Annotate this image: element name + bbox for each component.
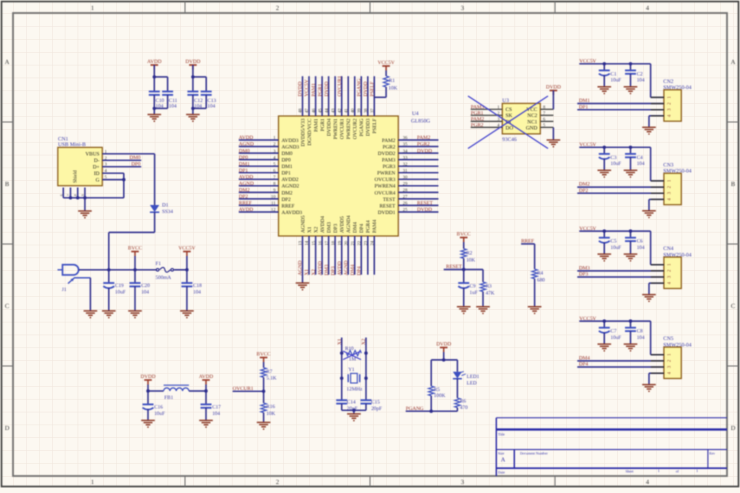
- svg-text:Sheet: Sheet: [626, 470, 634, 474]
- resistor R2 10K: [463, 242, 465, 249]
- svg-text:F1: F1: [156, 261, 162, 267]
- svg-text:PAM3: PAM3: [382, 158, 396, 164]
- U4 pin 24 PAM4: [373, 236, 375, 275]
- svg-text:DP4: DP4: [359, 223, 365, 233]
- svg-text:R2: R2: [466, 251, 472, 257]
- svg-text:DVDD: DVDD: [417, 148, 432, 154]
- svg-text:47K: 47K: [486, 290, 495, 296]
- net DM1 wire pin 2: [577, 103, 664, 105]
- svg-text:X1: X1: [307, 226, 313, 233]
- svg-text:SK: SK: [506, 113, 513, 119]
- capacitor C13 104: [201, 91, 212, 93]
- capacitor C10 104: [153, 77, 155, 92]
- svg-text:CN4: CN4: [663, 246, 673, 252]
- resistor R7 5.1K: [263, 362, 265, 368]
- no-fit cross over U3: [468, 96, 548, 149]
- svg-text:24: 24: [370, 240, 375, 245]
- pin 4 wire ID: [102, 172, 124, 174]
- pin 1 wire VBUS: [102, 153, 154, 155]
- capacitor C19 10uF: [108, 270, 110, 283]
- svg-text:8: 8: [74, 194, 78, 196]
- U4 pin 29 PWREN4: [398, 185, 438, 187]
- wire branch: [154, 76, 167, 78]
- U4 pin 40 OVCUR2: [354, 76, 356, 116]
- svg-text:OVCUR4: OVCUR4: [375, 190, 396, 196]
- wire X1: [341, 338, 343, 401]
- capacitor C2 104: [630, 64, 632, 71]
- svg-text:10uF: 10uF: [611, 161, 622, 167]
- U4 pin 13 AGND5: [302, 236, 304, 283]
- svg-text:PGR1: PGR1: [320, 118, 326, 131]
- svg-text:1: 1: [91, 479, 94, 486]
- svg-text:R3: R3: [486, 284, 492, 290]
- svg-text:AGND2: AGND2: [282, 184, 300, 190]
- svg-text:DP1: DP1: [282, 171, 292, 177]
- svg-text:15: 15: [311, 240, 316, 245]
- svg-text:X2: X2: [311, 269, 317, 276]
- svg-text:27: 27: [403, 194, 408, 199]
- svg-text:38: 38: [363, 108, 368, 113]
- U4 pin 19 AVDD5: [341, 236, 343, 275]
- svg-text:DM3: DM3: [324, 264, 330, 275]
- U4 pin 15 X2: [315, 236, 317, 275]
- wire DVDD stem: [192, 65, 194, 77]
- svg-text:104: 104: [212, 411, 220, 417]
- svg-text:PGANG: PGANG: [357, 78, 363, 96]
- U3 pin 1 CS: [471, 108, 503, 110]
- U4 pin 21 DM4: [354, 236, 356, 275]
- svg-text:B: B: [5, 181, 9, 188]
- U4 pin 2 AGND3: [239, 146, 279, 148]
- crystal Y1 12MHz: [347, 374, 349, 382]
- svg-text:104: 104: [637, 245, 645, 251]
- svg-text:U4: U4: [412, 111, 419, 117]
- U3 pin 6 NC1: [540, 120, 553, 122]
- capacitor C4 104: [630, 147, 632, 154]
- svg-text:PAM2: PAM2: [382, 138, 396, 144]
- svg-text:X1: X1: [304, 269, 310, 276]
- pin 5 wire G: [102, 179, 124, 181]
- svg-text:VBUS: VBUS: [85, 152, 99, 158]
- svg-text:30: 30: [403, 175, 408, 180]
- net DP4 wire pin 3: [577, 366, 664, 368]
- svg-text:AVDD4: AVDD4: [320, 216, 326, 233]
- capacitor C5 10uF: [603, 231, 605, 238]
- U4 pin 12 AAVDD3: [239, 211, 279, 213]
- svg-text:C: C: [731, 303, 735, 310]
- pin stubs: [651, 96, 664, 98]
- svg-text:47: 47: [304, 108, 309, 113]
- svg-text:DVDD4: DVDD4: [327, 118, 333, 136]
- ground: [84, 311, 98, 315]
- U4 pin 20 AGND4: [347, 236, 349, 275]
- svg-text:10K: 10K: [466, 257, 475, 263]
- ground: [128, 311, 142, 315]
- U4 pin 44 DVDD4: [328, 76, 330, 116]
- svg-text:AVDD: AVDD: [239, 207, 254, 213]
- svg-text:500mA: 500mA: [156, 275, 172, 281]
- svg-text:104: 104: [637, 78, 645, 84]
- U4 pin 11 RREF: [239, 204, 279, 206]
- svg-text:R4: R4: [537, 271, 543, 277]
- U4 pin 4 DP0: [239, 159, 279, 161]
- capacitor C11 104: [162, 91, 173, 93]
- ferrite bead FB1: [148, 390, 164, 392]
- svg-text:45: 45: [317, 108, 322, 113]
- ground: [78, 211, 92, 215]
- svg-text:DM2: DM2: [239, 188, 250, 194]
- svg-text:Rev: Rev: [709, 452, 715, 456]
- svg-text:J1: J1: [62, 287, 67, 293]
- svg-text:Title: Title: [498, 433, 505, 437]
- ground: [148, 115, 162, 119]
- svg-text:C1: C1: [611, 71, 617, 77]
- svg-text:DM0: DM0: [130, 155, 141, 161]
- svg-text:PGANG: PGANG: [406, 406, 424, 412]
- svg-text:1: 1: [658, 469, 660, 473]
- wire branch: [431, 359, 457, 361]
- svg-text:104: 104: [637, 161, 645, 167]
- svg-text:DVDD: DVDD: [417, 207, 432, 213]
- svg-text:C14: C14: [347, 400, 356, 406]
- wire pin 4 to ground: [649, 115, 664, 117]
- svg-text:C5: C5: [611, 239, 617, 245]
- svg-text:DP0: DP0: [239, 155, 249, 161]
- net DM4 wire pin 2: [577, 360, 664, 362]
- svg-text:470: 470: [460, 405, 468, 411]
- svg-text:AVDD: AVDD: [239, 175, 254, 181]
- svg-text:D+: D+: [93, 165, 100, 171]
- svg-text:PAM2: PAM2: [417, 135, 431, 141]
- ground: [598, 87, 612, 91]
- svg-text:DP1: DP1: [239, 168, 249, 174]
- svg-text:680: 680: [537, 277, 545, 283]
- svg-text:AGND4: AGND4: [346, 215, 352, 233]
- svg-text:AVDD: AVDD: [317, 261, 323, 276]
- svg-text:AGND: AGND: [343, 260, 349, 275]
- ground: [180, 311, 194, 315]
- ground: [257, 422, 271, 426]
- U4 pin 46 PAM1: [315, 76, 317, 116]
- svg-text:PGR1: PGR1: [317, 83, 323, 96]
- svg-text:OVCUR2: OVCUR2: [353, 118, 359, 139]
- wire / net RESET: [463, 258, 465, 269]
- svg-text:1: 1: [696, 469, 698, 473]
- capacitor C3 10uF: [603, 147, 605, 154]
- U4 pin 39 PGANG: [360, 76, 362, 116]
- svg-text:C: C: [5, 303, 9, 310]
- svg-text:PAM4: PAM4: [372, 219, 378, 233]
- svg-text:PWREN: PWREN: [377, 171, 395, 177]
- wire pin 5 to ground: [552, 128, 554, 141]
- svg-text:2: 2: [276, 5, 279, 12]
- capacitor C9 1uF: [463, 270, 465, 284]
- U4 pin 35 PGR2: [398, 146, 438, 148]
- svg-text:CN2: CN2: [663, 79, 673, 85]
- wire to power rail: [154, 212, 156, 232]
- net DP2 wire pin 3: [577, 192, 664, 194]
- svg-text:43: 43: [330, 108, 335, 113]
- wire VBUS down: [154, 154, 156, 205]
- ground: [528, 307, 542, 311]
- svg-text:PSELF: PSELF: [372, 118, 378, 133]
- svg-text:1uF: 1uF: [470, 290, 478, 296]
- svg-text:42: 42: [337, 108, 342, 113]
- net DP3 wire pin 3: [577, 276, 664, 278]
- svg-text:33: 33: [403, 155, 408, 160]
- svg-text:104: 104: [207, 104, 215, 110]
- ground: [457, 307, 471, 311]
- svg-text:FB1: FB1: [164, 395, 173, 401]
- svg-text:AVDD3: AVDD3: [282, 138, 299, 144]
- U4 pin 41 PWREN2: [347, 76, 349, 116]
- wire / net OVCUR1: [263, 377, 265, 391]
- ground: [296, 283, 310, 287]
- U4 pin 6 DP1: [239, 172, 279, 174]
- U4 pin 32 PGR3: [398, 165, 438, 167]
- svg-text:OVCUR3: OVCUR3: [375, 177, 396, 183]
- svg-text:SS34: SS34: [162, 209, 173, 215]
- U4 pin 36 PAM2: [398, 139, 438, 141]
- U4 pin 3 DM0: [239, 152, 279, 154]
- svg-text:26: 26: [403, 201, 408, 206]
- fuse F1 500mA: [156, 269, 159, 272]
- svg-text:9: 9: [81, 194, 85, 196]
- svg-text:PGR3: PGR3: [383, 164, 396, 170]
- svg-text:DP0: DP0: [131, 161, 141, 167]
- svg-text:DVDD1: DVDD1: [378, 210, 396, 216]
- ground: [624, 170, 638, 174]
- svg-text:DP2: DP2: [282, 197, 292, 203]
- svg-text:PSELF: PSELF: [370, 81, 376, 96]
- svg-text:DGND/VCC: DGND/VCC: [307, 118, 313, 146]
- svg-text:DM1: DM1: [579, 98, 590, 104]
- U4 pin 48 DVDD5/V33: [302, 76, 304, 116]
- U4 pin 16 AVDD4: [321, 236, 323, 275]
- svg-text:D-: D-: [94, 158, 100, 164]
- svg-text:14: 14: [304, 240, 309, 245]
- U4 pin 14 X1: [308, 236, 310, 275]
- U4 pin 26 RESET: [398, 204, 438, 206]
- capacitor C20 104: [134, 270, 136, 283]
- svg-text:R16: R16: [266, 404, 275, 410]
- U4 pin 45 PGR1: [321, 76, 323, 116]
- svg-text:104: 104: [193, 289, 201, 295]
- svg-text:AGND: AGND: [239, 181, 254, 187]
- LED LED1: [453, 372, 462, 379]
- wire PSELF: [385, 87, 387, 97]
- wire / net PGANG: [406, 410, 458, 412]
- ground: [598, 344, 612, 348]
- U4 pin 34 DVDD2: [398, 152, 438, 154]
- wire join: [193, 107, 206, 109]
- svg-text:DP1: DP1: [579, 104, 589, 110]
- wire VCC5V to pin 1: [650, 321, 652, 355]
- ground: [199, 420, 213, 424]
- svg-text:C20: C20: [141, 283, 150, 289]
- svg-text:DM1: DM1: [282, 164, 293, 170]
- wire DVDD to pin 8: [552, 91, 554, 110]
- svg-text:DVDD2: DVDD2: [378, 151, 396, 157]
- svg-text:X2: X2: [314, 226, 320, 233]
- svg-text:10: 10: [271, 194, 276, 199]
- ground: [598, 254, 612, 258]
- pin stubs: [651, 264, 664, 266]
- svg-text:R1: R1: [389, 78, 395, 84]
- pin stubs: [651, 180, 664, 182]
- capacitor C8 104: [630, 321, 632, 328]
- capacitor C18 104: [186, 270, 188, 283]
- U4 pin 37 PSELF: [373, 76, 375, 116]
- svg-text:DVDD3: DVDD3: [366, 118, 372, 136]
- svg-text:PWREN4: PWREN4: [375, 184, 396, 190]
- svg-text:A: A: [731, 59, 736, 66]
- svg-text:39: 39: [357, 108, 362, 113]
- capacitor C12 104: [192, 77, 194, 92]
- svg-text:A: A: [5, 59, 10, 66]
- svg-text:29: 29: [403, 181, 408, 186]
- svg-text:OVCUR1: OVCUR1: [233, 386, 254, 392]
- svg-text:13: 13: [298, 240, 303, 245]
- svg-text:DP0: DP0: [282, 158, 292, 164]
- svg-text:GL850G: GL850G: [411, 119, 430, 125]
- svg-text:DM4: DM4: [350, 264, 356, 275]
- svg-text:DM0: DM0: [239, 148, 250, 154]
- svg-text:Size: Size: [498, 452, 505, 456]
- svg-text:NC2: NC2: [527, 113, 537, 119]
- U3 pin 5 GND: [540, 126, 553, 128]
- svg-text:10uF: 10uF: [611, 245, 622, 251]
- U3 pin 7 NC2: [540, 114, 553, 116]
- svg-text:Date: Date: [498, 471, 505, 475]
- wire main rail: [79, 269, 157, 271]
- ground: [141, 420, 155, 424]
- svg-text:10uF: 10uF: [154, 411, 165, 417]
- ground: [624, 254, 638, 258]
- svg-text:3: 3: [461, 5, 464, 12]
- ground: [642, 295, 656, 299]
- wire: [174, 269, 187, 271]
- svg-text:TEST: TEST: [383, 197, 396, 203]
- svg-text:10K: 10K: [388, 85, 397, 91]
- svg-text:DM3: DM3: [579, 266, 590, 272]
- U3 pin 8 VCC: [540, 108, 553, 110]
- resistor R4 680: [534, 244, 536, 269]
- svg-text:DP3: DP3: [333, 223, 339, 233]
- svg-text:PGR2: PGR2: [417, 142, 430, 148]
- svg-text:93C46: 93C46: [502, 137, 517, 143]
- U4 pin 22 DP4: [360, 236, 362, 275]
- svg-text:C17: C17: [212, 405, 221, 411]
- svg-text:PWREN2: PWREN2: [346, 118, 352, 139]
- U3 pin 2 SK: [471, 114, 503, 116]
- svg-text:AGND: AGND: [298, 260, 304, 275]
- svg-text:DP4: DP4: [579, 362, 589, 368]
- U3 pin 3 DI: [471, 120, 503, 122]
- U4 pin 18 DP3: [334, 236, 336, 275]
- resistor R3 47K: [480, 282, 485, 292]
- U4 pin 30 OVCUR3: [398, 178, 438, 180]
- ground: [642, 211, 656, 215]
- capacitor C7 10uF: [603, 321, 605, 328]
- svg-text:OVCUR1: OVCUR1: [340, 118, 346, 139]
- svg-text:36: 36: [403, 135, 408, 140]
- svg-text:AVDD: AVDD: [337, 261, 343, 276]
- U4 pin 23 PGR4: [367, 236, 369, 275]
- svg-text:DVDD: DVDD: [298, 81, 304, 96]
- svg-text:RESET: RESET: [379, 203, 396, 209]
- wire to R3: [464, 269, 483, 271]
- svg-text:C7: C7: [611, 329, 617, 335]
- svg-text:21: 21: [350, 240, 355, 245]
- svg-text:LED1: LED1: [467, 374, 480, 380]
- svg-text:ID: ID: [94, 171, 100, 177]
- U4 pin 10 DP2: [239, 198, 279, 200]
- wire VCC5V to pin 1: [650, 231, 652, 265]
- svg-text:AVDD5: AVDD5: [340, 216, 346, 233]
- svg-text:R10: R10: [345, 346, 354, 352]
- svg-text:16: 16: [317, 240, 322, 245]
- svg-text:R5: R5: [434, 387, 440, 393]
- svg-text:22: 22: [357, 240, 362, 245]
- pin 3 wire / net DP0: [102, 166, 141, 168]
- svg-text:10uF: 10uF: [115, 289, 126, 295]
- net DM3 wire pin 2: [577, 270, 664, 272]
- svg-text:12: 12: [271, 207, 276, 212]
- resistor R16 10K: [263, 391, 265, 403]
- wire X2: [365, 338, 367, 401]
- svg-text:17: 17: [324, 240, 329, 245]
- svg-text:PGR2: PGR2: [471, 123, 484, 129]
- U4 pin 42 OVCUR1: [341, 76, 343, 116]
- svg-text:PGANG: PGANG: [359, 118, 365, 136]
- svg-text:C2: C2: [637, 71, 643, 77]
- U4 pin 17 DM3: [328, 236, 330, 275]
- zone tick marks: [184, 2, 186, 14]
- svg-text:12MHz: 12MHz: [347, 386, 364, 392]
- U3 pin 4 DO: [471, 126, 503, 128]
- svg-text:AGND3: AGND3: [282, 144, 300, 150]
- svg-text:R6: R6: [460, 399, 466, 405]
- wire VCC5V to pin 1: [650, 64, 652, 98]
- svg-text:OVCUR1: OVCUR1: [337, 75, 343, 96]
- ground: [347, 414, 361, 418]
- svg-text:6: 6: [59, 194, 63, 196]
- svg-text:37: 37: [370, 108, 375, 113]
- svg-text:C4: C4: [637, 155, 643, 161]
- svg-text:C18: C18: [193, 283, 202, 289]
- svg-text:10K: 10K: [266, 411, 275, 417]
- svg-text:RREF: RREF: [239, 201, 252, 207]
- wire pin 4 to ground: [649, 198, 664, 200]
- svg-text:DM4: DM4: [353, 222, 359, 233]
- ground: [624, 87, 638, 91]
- svg-text:46: 46: [311, 108, 316, 113]
- svg-text:D1: D1: [162, 203, 169, 209]
- capacitor C15 20pF: [361, 399, 372, 401]
- svg-text:11: 11: [271, 201, 276, 206]
- svg-text:PGR1: PGR1: [471, 111, 484, 117]
- U4 pin 31 PWREN: [398, 172, 438, 174]
- svg-text:3: 3: [461, 479, 464, 486]
- title block: [496, 418, 727, 476]
- svg-text:CN3: CN3: [663, 162, 673, 168]
- U4 pin 25 DVDD1: [398, 211, 438, 213]
- svg-text:PAM1: PAM1: [314, 118, 320, 132]
- ground: [598, 170, 612, 174]
- svg-text:A: A: [501, 458, 506, 464]
- U4 pin 5 DM1: [239, 165, 279, 167]
